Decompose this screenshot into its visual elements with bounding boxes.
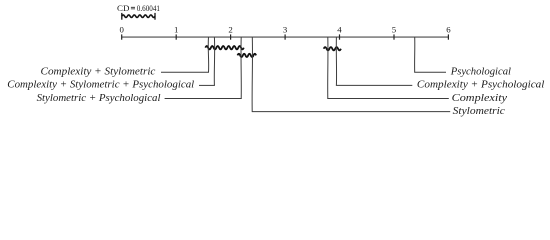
axis tick 1 (175, 34, 177, 39)
clique bar 1 (Complexity+Stylometric .. Stylometric+Psychological) (205, 46, 243, 49)
svg-text:Psychological: Psychological (450, 66, 511, 78)
svg-text:CD: CD (117, 4, 129, 13)
axis tick 2 (230, 34, 232, 39)
label line: Complexity + Psychological (336, 84, 412, 86)
label line: Psychological (414, 71, 446, 73)
vertical line: Complexity + Stylometric + Psychological (213, 37, 215, 85)
axis tick 6 (447, 34, 449, 39)
clique bar 3 (Complexity .. Complexity+Psychological) (324, 47, 341, 50)
svg-text:Complexity + Psychological: Complexity + Psychological (417, 79, 545, 91)
svg-text:6: 6 (446, 24, 451, 34)
vertical line: Psychological (414, 37, 416, 72)
svg-text:Complexity + Stylometric: Complexity + Stylometric (41, 66, 156, 78)
vertical line: Stylometric + Psychological (240, 37, 242, 98)
svg-text:0: 0 (119, 24, 124, 34)
vertical line: Complexity (327, 37, 329, 98)
clique bar 2 (Stylometric+Psychological .. Stylometric) (238, 54, 257, 57)
vertical line: Stylometric (251, 37, 253, 112)
svg-text:Stylometric + Psychological: Stylometric + Psychological (37, 92, 161, 104)
svg-text:Stylometric: Stylometric (453, 105, 505, 117)
svg-text:Complexity + Stylometric + Psy: Complexity + Stylometric + Psychological (7, 79, 194, 91)
vertical line: Complexity + Psychological (335, 37, 337, 85)
label line: Complexity + Stylometric + Psychological (199, 84, 215, 86)
axis tick 4 (339, 34, 341, 39)
axis tick 3 (284, 34, 286, 39)
svg-text:2: 2 (228, 24, 232, 34)
CD ruler right cap (154, 13, 156, 20)
svg-text:Complexity: Complexity (452, 92, 508, 104)
svg-text:3: 3 (283, 24, 288, 34)
svg-text:0.60041: 0.60041 (137, 4, 160, 13)
vertical line: Complexity + Stylometric (207, 37, 209, 72)
label line: Stylometric (252, 111, 450, 113)
svg-text:1: 1 (174, 24, 178, 34)
axis line (122, 36, 449, 38)
CD ruler wavy bar (122, 15, 155, 18)
label line: Complexity + Stylometric (161, 71, 209, 73)
label line: Complexity (327, 98, 449, 100)
svg-text:5: 5 (392, 24, 397, 34)
label line: Stylometric + Psychological (165, 98, 242, 100)
CD ruler left cap (121, 13, 123, 20)
axis tick 5 (393, 34, 395, 39)
axis tick 0 (121, 34, 123, 39)
svg-text:4: 4 (337, 24, 342, 34)
